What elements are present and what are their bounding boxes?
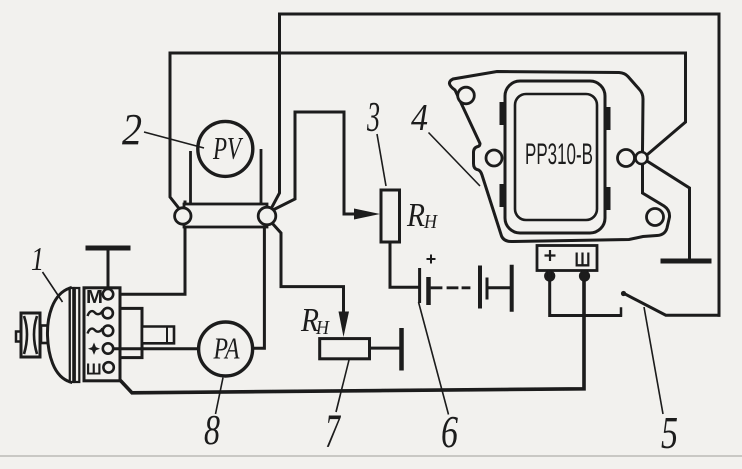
regulator cover [505, 81, 605, 233]
terminal Sh [103, 362, 113, 372]
switch blade tip dot [621, 291, 626, 296]
battery plate short 1 [426, 277, 431, 305]
generator pulley [21, 313, 40, 357]
terminal bar RH7 right [399, 330, 404, 368]
wire regulator plus lead to switch contact [550, 274, 621, 316]
node PV right post [258, 207, 276, 225]
generator label star plus [88, 343, 100, 355]
svg-text:Н: Н [315, 317, 330, 339]
regulator 4 body [449, 72, 669, 242]
pointer 4 [429, 133, 481, 187]
generator label tilde 2 [88, 328, 103, 333]
rheostat RH7 body [320, 339, 370, 359]
generator hub [41, 326, 52, 344]
terminal M [103, 289, 113, 299]
svg-text:4: 4 [411, 97, 428, 139]
svg-text:6: 6 [441, 407, 458, 457]
generator collector band [70, 288, 74, 382]
regulator ear hole top-left [458, 87, 475, 104]
generator label tilde 1 [88, 311, 103, 316]
rheostat RH7 arrow head [339, 312, 350, 338]
pointer 6 [419, 302, 449, 415]
generator terminal block [84, 288, 120, 381]
svg-text:Н: Н [423, 211, 438, 233]
rheostat RH3 arrow head [354, 209, 380, 220]
svg-text:M: M [86, 287, 103, 307]
lead stubs [550, 271, 585, 278]
wire Sh generator to bottom bus [112, 279, 585, 393]
regulator lead dot Sh [579, 270, 590, 281]
rheostat RH3 body [381, 190, 400, 242]
voltmeter PV circle [198, 121, 253, 176]
switch fixed contact tick [620, 309, 623, 316]
wire ground bus to PV left post [170, 53, 180, 209]
wire RH7 right terminal [370, 347, 401, 350]
generator 1 group [16, 288, 174, 382]
node PV left post [175, 208, 191, 224]
wire armature center drop to PV right post [272, 14, 280, 207]
battery plate long 1 [418, 268, 421, 303]
pointer 8 [216, 378, 224, 414]
regulator terminal strip [537, 246, 597, 271]
pointer 1 [43, 272, 63, 302]
switch blade [624, 294, 719, 316]
svg-text:Ш: Ш [86, 362, 102, 379]
svg-text:R: R [406, 197, 425, 234]
terminal plus [103, 343, 113, 353]
ammeter PA circle [199, 322, 253, 376]
regulator main body with ears [449, 72, 669, 242]
scan artifact line bottom [0, 455, 742, 457]
ground right symbol [663, 259, 709, 264]
battery plate short 2 [486, 278, 489, 300]
svg-text:PV: PV [212, 130, 243, 166]
svg-text:5: 5 [661, 407, 678, 458]
regulator ear hole right [618, 150, 635, 167]
generator stator housing [120, 308, 142, 357]
wire PV right post to RH3 slider [275, 112, 344, 212]
regulator right terminal bolt [636, 152, 648, 164]
wire generator plus to PA left [114, 347, 200, 350]
svg-text:Ш: Ш [575, 250, 591, 272]
wire ground drop right [647, 161, 690, 259]
svg-text:PA: PA [213, 331, 241, 366]
svg-text:PP310-B: PP310-B [525, 138, 593, 171]
generator dome body [47, 288, 70, 382]
strip plus label [545, 250, 556, 261]
battery plate long 2 [478, 266, 482, 309]
regulator clip left bottom [500, 184, 507, 207]
voltmeter PV base [184, 149, 267, 227]
regulator ear hole bottom-right [647, 209, 664, 226]
wire battery dashes [432, 286, 469, 289]
terminal AC 2 [103, 326, 113, 336]
regulator clip left top [500, 102, 507, 125]
svg-text:7: 7 [325, 405, 341, 458]
battery plate long 3 [510, 265, 514, 312]
wire RH3 bottom to battery [390, 242, 417, 287]
wire M terminal to PV left post [114, 202, 186, 294]
pointer 5 [644, 307, 663, 414]
wire PV right post down to PA [253, 220, 264, 348]
regulator label plate [515, 94, 597, 220]
ground stem at generator [107, 250, 110, 290]
wire outer loop (armature + to switch) [280, 14, 720, 315]
wire PV right post to RH7 [272, 223, 344, 314]
wire arrow into RH3 [344, 213, 362, 216]
wire battery mid link [489, 286, 509, 289]
ground bar at generator [88, 246, 128, 251]
regulator lead dot plus [544, 270, 555, 281]
pointer 2 [144, 132, 204, 148]
wire ground bus top [170, 53, 686, 154]
generator pulley shaft nub [16, 332, 21, 342]
regulator clip right top [604, 107, 611, 130]
terminal AC 1 [103, 308, 113, 318]
pointer 3 [377, 134, 386, 186]
pointer 7 [336, 359, 349, 412]
svg-text:8: 8 [204, 408, 220, 454]
svg-text:2: 2 [122, 105, 142, 154]
regulator ear hole left [486, 150, 502, 166]
battery plus sign [427, 255, 436, 264]
regulator clip right bottom [604, 187, 611, 210]
generator shaft end [142, 327, 174, 344]
svg-text:3: 3 [366, 95, 380, 141]
